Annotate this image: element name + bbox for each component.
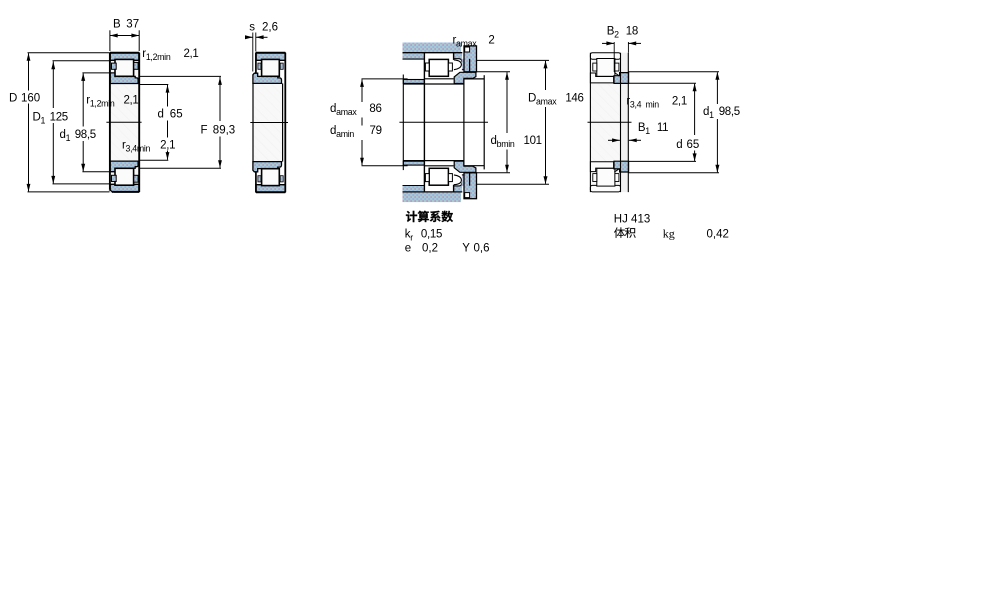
view2 bore right line bbox=[282, 83, 284, 161]
view4 outer ring top outline bbox=[590, 53, 620, 60]
view3 HJ ring lip and shaft shoulder top bbox=[454, 72, 476, 83]
view4 chamfer mark top bbox=[614, 73, 619, 76]
view3 housing shoulder left top bbox=[403, 53, 424, 58]
view2 bore left line bbox=[252, 83, 254, 161]
view3 cage bottom right bbox=[448, 174, 452, 182]
dim dv4 ext top bbox=[628, 82, 696, 84]
view3 housing bore line bottom bbox=[403, 191, 463, 193]
dim d1v4 ext bottom bbox=[628, 172, 719, 174]
view1 cage top left bbox=[112, 63, 117, 69]
view3 shaft surface top line bbox=[403, 83, 464, 85]
view3 abutment ring bottom bbox=[464, 173, 477, 199]
dim B1 11 bbox=[608, 139, 620, 141]
view3 shaft shoulder left bottom bbox=[403, 161, 424, 165]
dim F ext bottom bbox=[140, 167, 221, 169]
view3 flange strip bottom bbox=[462, 175, 469, 185]
view1 right face line bbox=[138, 53, 140, 192]
dim B 37 line bbox=[110, 35, 139, 37]
dim da ext top bbox=[362, 78, 408, 80]
svg-text:2,6: 2,6 bbox=[262, 21, 278, 33]
svg-text:d: d bbox=[676, 139, 682, 151]
view2 cage top right bbox=[280, 63, 283, 69]
svg-text:65: 65 bbox=[687, 139, 700, 151]
view2 bore region fill bbox=[253, 84, 282, 162]
dim dv4 ext bottom bbox=[628, 160, 696, 162]
dim d ext top bbox=[140, 84, 169, 86]
view4 cage bottom left bbox=[593, 174, 597, 182]
view3 raceway line top bbox=[424, 78, 453, 80]
dim d1v4 ext top bbox=[628, 71, 719, 73]
view1 bottom edge line bbox=[110, 191, 139, 193]
view2 roller top bbox=[262, 59, 280, 76]
view4 inner ring bottom outline bbox=[590, 162, 613, 172]
view4 outer ring bottom outline bbox=[590, 185, 620, 192]
svg-text:0,2: 0,2 bbox=[422, 243, 438, 255]
view3 roller top bbox=[429, 59, 448, 76]
view3 housing bore line top bbox=[403, 52, 463, 54]
view1 cage bottom right bbox=[134, 175, 138, 182]
view1 outer ring top band bbox=[110, 53, 139, 60]
view3 shaft step face line bbox=[463, 79, 465, 166]
view3 housing shoulder left bottom bbox=[403, 186, 424, 191]
view3 housing shoulder right top with fillet bbox=[454, 53, 462, 62]
dim B 37 extension lines bbox=[109, 30, 111, 51]
view3 abutment ring relief notch bottom bbox=[465, 193, 470, 198]
dim dbmin ext bottom bbox=[477, 172, 510, 174]
view4 cage top right bbox=[615, 63, 619, 71]
view3 bearing right face top bbox=[453, 53, 455, 60]
svg-text:F: F bbox=[201, 125, 208, 137]
view1 cage top right bbox=[134, 62, 138, 69]
view3 cage top right bbox=[448, 63, 452, 71]
view2 inner ring bottom bbox=[253, 162, 282, 172]
view1 roller bottom bbox=[115, 168, 134, 185]
view3 cage bottom left bbox=[425, 174, 429, 182]
view1 inner ring top bbox=[110, 73, 138, 84]
svg-text:HJ 413: HJ 413 bbox=[614, 213, 650, 225]
view2 outer ring bottom band bbox=[256, 185, 285, 192]
svg-text:0,6: 0,6 bbox=[474, 243, 490, 255]
label mass bbox=[614, 227, 625, 238]
dim s ext left bbox=[252, 33, 254, 72]
view4 HJ wall right line bbox=[627, 53, 629, 192]
dim D1 ext top bbox=[53, 60, 110, 62]
view4 roller bottom outline bbox=[597, 168, 615, 186]
view3 bearing left face line bbox=[423, 53, 425, 192]
view1 inner ring bottom bbox=[110, 161, 138, 172]
view3 inner ring corner recess top bbox=[454, 60, 462, 70]
view2 cage bottom right bbox=[280, 176, 283, 182]
svg-text:s: s bbox=[249, 22, 255, 34]
dim F ext top bbox=[140, 75, 221, 77]
svg-text:B: B bbox=[113, 19, 121, 31]
view2 roller bottom bbox=[262, 169, 280, 186]
view3 inner ring corner recess bottom bbox=[454, 175, 462, 185]
svg-text:Y: Y bbox=[462, 243, 470, 255]
view3 shaft b-diameter bottom line bbox=[464, 165, 484, 167]
dim B2 ext left bbox=[613, 42, 615, 72]
view4 cage bottom right bbox=[615, 174, 619, 182]
svg-text:89,3: 89,3 bbox=[213, 125, 235, 137]
dim D1 ext bottom bbox=[53, 183, 110, 185]
view3 HJ ring lip and shaft shoulder bottom bbox=[454, 161, 476, 172]
dim d ext bottom bbox=[140, 159, 169, 161]
view3 housing shoulder right bottom with fillet bbox=[454, 182, 462, 191]
view4 HJ angle ring bottom section bbox=[614, 161, 629, 172]
view4 right face line bbox=[620, 53, 622, 192]
view2 axis center line bbox=[250, 122, 288, 124]
view3 bearing right face bottom bbox=[453, 185, 455, 192]
view4 HJ angle ring top section bbox=[614, 73, 629, 84]
view3 shaft b-diameter top line bbox=[464, 78, 484, 80]
view4 body fill bbox=[590, 53, 620, 192]
dim da ext bottom bbox=[362, 165, 408, 167]
view3 axis center line bbox=[399, 121, 488, 123]
view4 HJ wall band fill bbox=[621, 53, 629, 192]
view3 shaft b right edge line bbox=[483, 75, 485, 169]
view3 shaft surface bottom line bbox=[403, 160, 464, 162]
svg-text:160: 160 bbox=[21, 93, 40, 105]
view3 cage top left bbox=[425, 63, 429, 71]
view3 shaft shoulder face line bbox=[402, 75, 404, 171]
view4 left face line bbox=[589, 53, 591, 192]
view3 housing band top bbox=[403, 43, 462, 53]
view4 cage top left bbox=[593, 63, 597, 71]
view2 cage top left bbox=[258, 63, 261, 69]
svg-text:37: 37 bbox=[126, 19, 139, 31]
dim dbmin ext top bbox=[477, 71, 510, 73]
view4 axis center line bbox=[588, 121, 632, 123]
view1 bore region fill bbox=[110, 53, 139, 192]
view3 abutment ring top bbox=[464, 46, 477, 72]
view1 outer ring bottom band bbox=[110, 184, 139, 191]
view1 roller top bbox=[115, 59, 134, 76]
svg-text:65: 65 bbox=[170, 109, 183, 121]
view1 cage bottom left bbox=[112, 175, 117, 181]
view1 left face line bbox=[109, 53, 111, 192]
view2 cage bottom left bbox=[258, 176, 261, 182]
dim D ext top bbox=[28, 52, 110, 54]
view4 inner ring top outline bbox=[590, 73, 613, 83]
view2 bottom edge bbox=[256, 191, 285, 193]
svg-text:0,42: 0,42 bbox=[707, 229, 729, 241]
dim D ext bottom bbox=[28, 191, 110, 193]
view3 shaft shoulder left top bbox=[403, 80, 424, 84]
view2 outer right face line bbox=[284, 53, 286, 193]
view3 housing band bottom bbox=[403, 192, 462, 202]
view3 abutment ring relief notch top bbox=[465, 47, 470, 52]
view2 outer ring top band bbox=[256, 53, 285, 60]
view3 flange strip top bbox=[462, 59, 469, 69]
calculation factors heading bbox=[406, 211, 417, 222]
view2 outer left face top bbox=[255, 53, 257, 73]
svg-text:D: D bbox=[9, 93, 17, 105]
view1 top edge line bbox=[110, 52, 139, 54]
view2 top edge bbox=[256, 52, 285, 54]
view2 inner ring top bbox=[253, 73, 282, 83]
dim d1 ext bottom bbox=[82, 171, 109, 173]
view4 chamfer mark bottom bbox=[614, 169, 619, 172]
view3 roller bottom bbox=[429, 168, 448, 185]
view1 bottom band chamfer bbox=[109, 189, 113, 193]
dim d1 ext top bbox=[82, 72, 109, 74]
dim s ext right bbox=[255, 33, 257, 52]
svg-text:kg: kg bbox=[663, 227, 675, 241]
svg-text:e: e bbox=[405, 243, 411, 255]
view3 raceway line bottom bbox=[424, 165, 453, 167]
dim Damax ext top bbox=[477, 59, 549, 61]
svg-text:d: d bbox=[158, 109, 164, 121]
view2 outer left face bottom bbox=[255, 172, 257, 192]
view1 axis center line bbox=[106, 121, 141, 123]
dim B2 ext right bbox=[627, 42, 629, 53]
dim Damax ext bottom bbox=[477, 183, 549, 185]
view4 roller top outline bbox=[597, 59, 615, 77]
